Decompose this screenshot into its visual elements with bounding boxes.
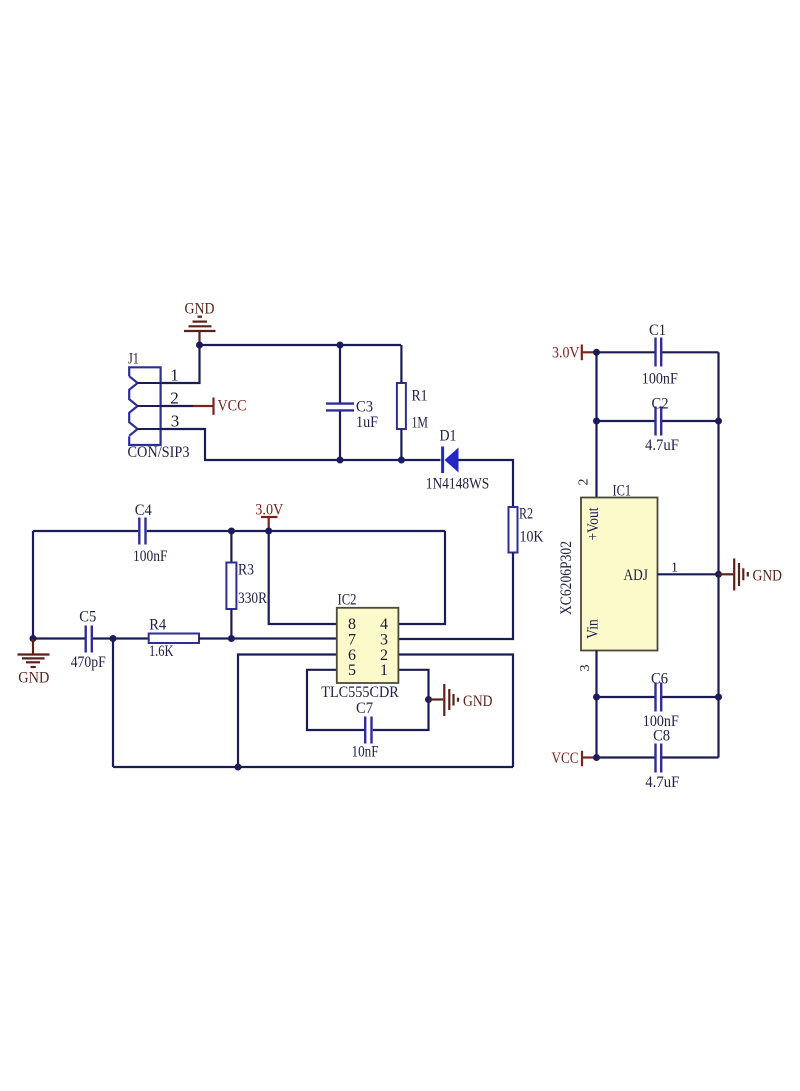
node C6 left xyxy=(593,694,600,701)
ground left GND xyxy=(18,639,50,668)
resistor R1 xyxy=(397,383,406,429)
op-amp/IC IC1 body XC6206P302 xyxy=(581,498,658,651)
ground GND at IC2 (sideways) xyxy=(429,684,459,716)
wire R4 to IC2 pin7 xyxy=(199,637,337,639)
wire pin2 to VCC xyxy=(161,405,193,407)
resistor R3 xyxy=(226,563,236,610)
svg-text:4.7uF: 4.7uF xyxy=(645,774,679,791)
power 3.0V symbol left xyxy=(261,517,278,531)
capacitor C1 xyxy=(656,338,662,367)
wire R2 bottom to IC2 pin3 xyxy=(399,553,514,640)
svg-text:100nF: 100nF xyxy=(642,370,678,387)
node left gnd junction xyxy=(30,635,37,642)
svg-text:IC1: IC1 xyxy=(613,483,632,500)
svg-text:1N4148WS: 1N4148WS xyxy=(426,476,490,493)
resistor R4 xyxy=(149,634,199,644)
diode D1 xyxy=(443,447,459,474)
node R1 bottom xyxy=(398,457,405,464)
svg-text:D1: D1 xyxy=(440,428,457,445)
svg-text:C2: C2 xyxy=(652,396,669,413)
svg-text:2: 2 xyxy=(577,479,592,486)
ground top (power ground symbol above J1 net) xyxy=(184,317,216,345)
wire pin3 to bottom rail xyxy=(161,429,441,460)
wire D1 to R2 xyxy=(459,460,514,507)
wire left rail down to IC1 xyxy=(595,352,597,497)
svg-text:470pF: 470pF xyxy=(71,654,106,671)
svg-text:TLC555CDR: TLC555CDR xyxy=(321,684,399,701)
wire bottom rail y=767 xyxy=(113,766,513,768)
svg-text:C8: C8 xyxy=(653,728,670,745)
svg-text:C4: C4 xyxy=(135,502,152,519)
wire C7 right to IC2 pin1 xyxy=(373,670,429,730)
svg-text:1uF: 1uF xyxy=(356,414,378,431)
wire IC1 Vin pin down xyxy=(595,651,597,758)
svg-text:R1: R1 xyxy=(412,388,428,405)
svg-text:C5: C5 xyxy=(79,609,96,626)
wire right rail xyxy=(717,352,719,757)
svg-text:C7: C7 xyxy=(356,700,373,717)
wire junction up to IC2 pin6 xyxy=(238,655,337,768)
svg-text:VCC: VCC xyxy=(218,398,247,415)
svg-text:XC6206P302: XC6206P302 xyxy=(558,541,575,615)
svg-text:3: 3 xyxy=(578,665,593,672)
capacitor C8 xyxy=(656,744,662,773)
power VCC symbol at pin2 xyxy=(193,398,214,415)
svg-text:4.7uF: 4.7uF xyxy=(645,437,679,454)
node top-gnd junction xyxy=(196,342,203,349)
wire mid rail y=638.5 left of C5 xyxy=(33,637,85,639)
svg-text:C1: C1 xyxy=(649,322,666,339)
wire down from C5 junction xyxy=(112,639,114,768)
node C3 top xyxy=(337,342,344,349)
svg-text:3: 3 xyxy=(171,412,180,431)
node ADJ gnd junction xyxy=(715,571,722,578)
wire C6 rail xyxy=(597,696,656,698)
wire VCC rail through C8 xyxy=(597,756,656,758)
power VCC symbol right xyxy=(582,751,597,767)
svg-text:GND: GND xyxy=(463,693,493,710)
svg-text:2: 2 xyxy=(170,389,179,408)
svg-text:1: 1 xyxy=(380,662,388,679)
node C2 right xyxy=(715,418,722,425)
wire IC1 ADJ pin to right rail xyxy=(658,573,719,575)
wire R3 top lead xyxy=(230,531,232,563)
svg-text:ADJ: ADJ xyxy=(624,567,649,584)
wire 3.0V down to IC2 pin8 xyxy=(269,531,337,624)
capacitor C7 xyxy=(365,717,371,744)
node C3 bottom xyxy=(337,457,344,464)
svg-text:1M: 1M xyxy=(412,415,429,432)
svg-text:1.6K: 1.6K xyxy=(149,643,174,660)
svg-text:J1: J1 xyxy=(128,351,139,368)
wire left rail down xyxy=(32,531,34,639)
node 3.0V junction xyxy=(265,528,272,535)
wire R3 bottom lead xyxy=(230,609,232,639)
svg-text:3.0V: 3.0V xyxy=(255,501,284,518)
svg-text:R3: R3 xyxy=(238,562,254,579)
node C5-R4 junction xyxy=(110,635,117,642)
wire C3 stems xyxy=(339,345,341,403)
wire bottom rail up to IC2 pin2 xyxy=(399,655,514,768)
svg-text:1: 1 xyxy=(671,560,678,575)
svg-text:5: 5 xyxy=(348,662,356,679)
node C6 right xyxy=(715,694,722,701)
wire C2 rail xyxy=(597,420,656,422)
node C2 left xyxy=(593,418,600,425)
node R3 top junction xyxy=(228,528,235,535)
wire rail down to IC2 pin4 xyxy=(399,531,446,624)
wire C5 to R4 xyxy=(93,637,149,639)
svg-text:R2: R2 xyxy=(519,506,533,523)
wire IC2 pin5 loop to pin1 through C7 xyxy=(307,670,364,730)
svg-text:10K: 10K xyxy=(520,529,544,546)
ground GND right (sideways) xyxy=(719,559,748,591)
svg-text:GND: GND xyxy=(185,301,215,318)
node C7 gnd junction xyxy=(425,696,432,703)
svg-text:3.0V: 3.0V xyxy=(552,345,580,362)
wire 3.0V rail y=531 xyxy=(33,530,138,532)
resistor R2 xyxy=(509,507,518,553)
svg-text:+Vout: +Vout xyxy=(585,507,602,540)
svg-text:GND: GND xyxy=(18,670,49,687)
svg-text:C3: C3 xyxy=(356,399,373,416)
wire top rail y=345 xyxy=(200,344,402,346)
capacitor C2 xyxy=(656,407,662,436)
svg-text:10nF: 10nF xyxy=(352,744,379,761)
svg-text:C6: C6 xyxy=(651,671,668,688)
wire top rail through C1 xyxy=(597,351,656,353)
svg-text:CON/SIP3: CON/SIP3 xyxy=(128,444,190,461)
capacitor C4 xyxy=(139,518,145,545)
svg-text:VCC: VCC xyxy=(552,750,579,767)
node 3.0V right junction xyxy=(593,349,600,356)
node bottom rail junction xyxy=(235,764,242,771)
svg-text:330R: 330R xyxy=(238,590,267,607)
node VCC junction xyxy=(593,754,600,761)
capacitor C3 xyxy=(326,404,354,411)
wire J1 pin leads inside body xyxy=(138,383,161,429)
connector J1 xyxy=(129,367,160,445)
capacitor C5 xyxy=(86,626,92,653)
svg-text:GND: GND xyxy=(753,568,783,585)
capacitor C6 xyxy=(656,683,662,712)
svg-text:R4: R4 xyxy=(149,617,166,634)
op-amp/IC IC2 body TLC555CDR xyxy=(337,608,399,683)
svg-text:1: 1 xyxy=(170,366,179,385)
wire R1 leads xyxy=(400,345,402,383)
power 3.0V symbol right xyxy=(582,345,597,361)
wire gnd to pin1 xyxy=(161,345,200,383)
svg-text:Vin: Vin xyxy=(585,619,602,639)
node R3 bottom junction xyxy=(228,635,235,642)
svg-text:IC2: IC2 xyxy=(338,592,357,609)
svg-text:100nF: 100nF xyxy=(133,548,168,565)
